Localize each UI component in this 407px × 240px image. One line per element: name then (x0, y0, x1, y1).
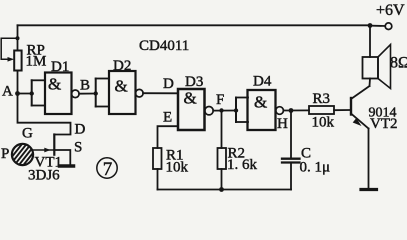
svg-text:10k: 10k (166, 160, 189, 176)
junction node H to capacitor C (289, 108, 294, 113)
arrowhead RP wiper (8, 57, 15, 62)
svg-text:B: B (80, 78, 90, 94)
wire D2 input bar and stubs (96, 79, 109, 107)
svg-text:D1: D1 (51, 59, 69, 75)
resistor R2 body (218, 148, 227, 169)
gate D3 output inversion bubble (205, 107, 213, 115)
gate D3 body (178, 89, 205, 130)
transistor VT2 base bar (350, 98, 352, 115)
svg-text:&: & (48, 75, 61, 94)
svg-text:D: D (75, 122, 86, 138)
wire node A down to VT1 drain (18, 94, 71, 135)
svg-text:+6V: +6V (376, 2, 405, 19)
resistor R1 body (153, 148, 162, 169)
gate D2 output inversion bubble (136, 89, 144, 97)
figure number 7 circled (97, 158, 117, 180)
wire VT2 collector to speaker (369, 79, 372, 87)
speaker BL horn (378, 45, 391, 89)
wire top rail to speaker (369, 25, 371, 57)
svg-text:E: E (163, 110, 172, 126)
wire node B D1 output to D2 input (79, 93, 96, 95)
gate D2 body (109, 71, 136, 114)
transistor VT2 emitter lead (351, 114, 369, 129)
wire R1 bottom lead to ground rail (157, 169, 159, 190)
junction node F to R2 (219, 108, 223, 112)
svg-text:1M: 1M (26, 54, 47, 70)
gate D1 output inversion bubble (72, 90, 80, 98)
gate D4 output inversion bubble (276, 107, 284, 115)
svg-text:D2: D2 (113, 58, 131, 74)
ground VT2 emitter (361, 188, 377, 191)
junction node A (15, 91, 20, 96)
svg-text:D3: D3 (185, 74, 203, 90)
wire junction to +6V terminal (370, 25, 385, 27)
gate D1 body (45, 73, 72, 115)
wire C bottom lead to ground rail (290, 164, 292, 190)
transistor VT2 collector lead (351, 86, 370, 99)
svg-text:R3: R3 (313, 91, 331, 107)
arrowhead VT2 emitter (353, 118, 362, 126)
junction D2 input bar (94, 91, 98, 95)
svg-text:&: & (184, 89, 197, 108)
svg-text:VT2: VT2 (370, 116, 398, 132)
gate D4 body (248, 90, 276, 130)
ground VT1 source (60, 164, 74, 168)
wire VT2 emitter to ground (368, 129, 370, 189)
terminal +6V open circle (385, 23, 392, 30)
resistor R3 body (309, 106, 334, 114)
svg-text:7: 7 (103, 159, 113, 180)
wire node A to D1 input bar (18, 93, 32, 95)
junction top rail / speaker branch (368, 23, 373, 28)
svg-text:H: H (277, 116, 288, 132)
wire RP bottom lead to node A (17, 71, 19, 94)
wire D1 input bar and stubs (32, 80, 45, 105)
wire node D D2 output to D3 upper input (143, 92, 178, 94)
wire D4 input bar and stubs (236, 98, 248, 123)
microphone P hatched circle (0, 142, 47, 168)
svg-text:CD4011: CD4011 (139, 38, 189, 54)
capacitor C plates (282, 159, 300, 163)
svg-text:0. 1μ: 0. 1μ (300, 160, 331, 176)
wire +6V supply top rail (18, 24, 371, 26)
svg-text:D: D (163, 76, 174, 92)
svg-text:3DJ6: 3DJ6 (28, 168, 60, 184)
junction RP wiper tap (16, 36, 20, 40)
wire bottom ground rail (158, 189, 292, 191)
wire node H D4 output to R3 (283, 109, 309, 111)
potentiometer RP body (14, 51, 21, 71)
svg-text:F: F (216, 92, 224, 108)
junction D4 input bar (234, 108, 238, 112)
svg-text:A: A (2, 84, 13, 100)
wire RP wiper (1, 38, 17, 59)
svg-text:G: G (22, 126, 33, 142)
wire R3 to VT2 base (334, 109, 350, 111)
wire node F D3 output to D4 input bar (213, 110, 236, 112)
wire VT1 gate lead (33, 149, 55, 151)
wire node E D3 lower input to R1 (158, 126, 179, 148)
wire C top lead (290, 111, 292, 158)
svg-text:P: P (1, 146, 9, 162)
svg-text:1. 6k: 1. 6k (227, 157, 258, 173)
svg-text:&: & (254, 93, 267, 112)
junction R2 at ground rail (219, 187, 224, 192)
speaker BL body (363, 57, 379, 79)
svg-text:8Ω: 8Ω (390, 55, 407, 72)
junction D1 input bar (30, 91, 34, 95)
wire VT1 source lead to ground (54, 150, 70, 164)
svg-text:&: & (115, 77, 128, 96)
svg-text:D4: D4 (253, 74, 272, 90)
wire R2 top lead (221, 111, 223, 149)
wire R2 bottom lead to ground rail (221, 169, 223, 190)
wire RP top lead (17, 25, 19, 50)
arrowhead VT1 gate (44, 148, 50, 153)
transistor VT1 channel (53, 135, 55, 155)
svg-text:10k: 10k (312, 115, 335, 131)
svg-text:S: S (74, 140, 82, 156)
